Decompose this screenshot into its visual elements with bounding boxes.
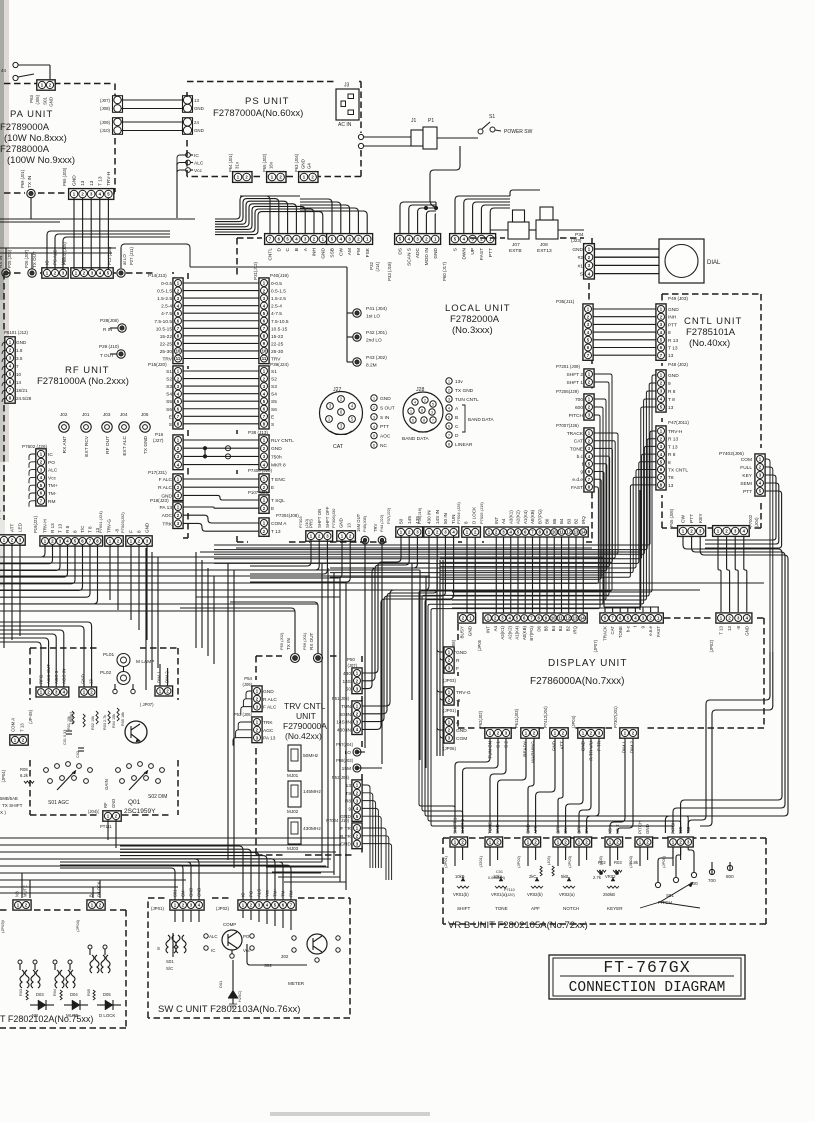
svg-text:7: 7: [16, 364, 19, 369]
svg-text:14S IN: 14S IN: [336, 720, 351, 726]
svg-text:P107 (J21): P107 (J21): [248, 490, 270, 495]
svg-text:SHFT ON: SHFT ON: [317, 509, 322, 528]
svg-text:P26 (J07): P26 (J07): [24, 249, 29, 268]
svg-text:PA UNIT: PA UNIT: [10, 109, 53, 120]
svg-text:TUN CNTL: TUN CNTL: [455, 397, 479, 403]
svg-text:D6: D6: [536, 625, 541, 631]
svg-text:50MHz: 50MHz: [303, 753, 319, 759]
svg-text:P39(J24): P39(J24): [270, 362, 289, 367]
svg-text:P48 (J02): P48 (J02): [668, 362, 688, 367]
svg-text:P7504 (J25): P7504 (J25): [456, 502, 461, 524]
svg-text:24: 24: [194, 120, 199, 125]
svg-text:FAST: FAST: [479, 248, 485, 260]
svg-text:PL02: PL02: [100, 670, 112, 676]
svg-text:RF OUT: RF OUT: [105, 436, 111, 454]
svg-text:DIM 1: DIM 1: [622, 741, 627, 754]
svg-text:CAT: CAT: [610, 626, 615, 635]
svg-text:TONE: TONE: [495, 906, 508, 911]
svg-text:FT-767GX: FT-767GX: [603, 958, 690, 977]
svg-text:S02 DIM: S02 DIM: [148, 794, 167, 800]
svg-text:F ALC: F ALC: [263, 705, 277, 711]
svg-text:GND: GND: [271, 446, 282, 452]
svg-text:(J09): (J09): [100, 120, 111, 125]
svg-text:13: 13: [194, 98, 199, 103]
svg-text:18/21: 18/21: [16, 388, 28, 393]
svg-text:ALC: ALC: [48, 468, 58, 474]
svg-text:B2: B2: [574, 518, 579, 524]
svg-text:(JP01): (JP01): [443, 855, 448, 867]
svg-text:GND: GND: [668, 373, 679, 379]
svg-text:(J04): (J04): [754, 517, 759, 527]
svg-text:ATT: ATT: [560, 741, 565, 750]
svg-text:TRV-H: TRV-H: [43, 519, 48, 533]
svg-text:FAST: FAST: [571, 485, 583, 491]
svg-text:P63 (J04): P63 (J04): [294, 153, 299, 172]
svg-text:44: 44: [1, 68, 7, 73]
svg-text:RX ANT: RX ANT: [62, 436, 68, 453]
svg-text:PTT: PTT: [689, 514, 695, 523]
svg-text:(JP05: (JP05: [477, 639, 482, 651]
svg-text:J02: J02: [60, 412, 68, 417]
svg-text:PA 13: PA 13: [160, 505, 173, 511]
svg-text:GND: GND: [197, 888, 202, 897]
svg-text:GND: GND: [111, 799, 116, 808]
svg-text:SHIFT: SHIFT: [457, 906, 470, 911]
svg-text:25-30: 25-30: [160, 349, 173, 355]
svg-text:IRQ: IRQ: [573, 625, 578, 633]
svg-text:ATT: ATT: [10, 523, 15, 532]
svg-text:13: 13: [668, 483, 674, 489]
svg-text:22-25: 22-25: [271, 341, 284, 347]
svg-text:VR02(a): VR02(a): [559, 892, 575, 897]
svg-text:SW C UNIT F2802103A(No.76xx): SW C UNIT F2802103A(No.76xx): [158, 1004, 300, 1015]
svg-text:P65 (J02): P65 (J02): [262, 153, 267, 172]
svg-text:PTT: PTT: [488, 248, 494, 257]
svg-text:F2788000A: F2788000A: [0, 144, 50, 155]
svg-text:VR03: VR03: [605, 874, 616, 879]
svg-text:TONE: TONE: [488, 822, 493, 834]
svg-text:J03: J03: [103, 412, 111, 417]
svg-text:13: 13: [347, 523, 352, 528]
svg-text:KEY: KEY: [742, 473, 752, 479]
svg-text:145: 145: [407, 516, 413, 524]
svg-text:RF: RF: [103, 802, 108, 808]
svg-text:C02: C02: [76, 751, 80, 758]
svg-text:P19(J21): P19(J21): [33, 515, 38, 533]
svg-text:P17(J31): P17(J31): [148, 470, 167, 475]
svg-text:R 13: R 13: [50, 523, 55, 533]
svg-text:SHIFT 1: SHIFT 1: [453, 817, 458, 834]
svg-text:PITCH: PITCH: [671, 821, 676, 834]
svg-text:GND: GND: [320, 247, 326, 258]
svg-text:INT: INT: [494, 517, 499, 524]
svg-text:E: E: [271, 414, 274, 420]
svg-text:(J09): (J09): [242, 682, 252, 687]
svg-text:(No.42xx): (No.42xx): [285, 731, 322, 741]
svg-text:S0 IN: S0 IN: [339, 712, 352, 718]
svg-text:T/C: T/C: [80, 525, 85, 533]
svg-text:E: E: [271, 485, 274, 491]
svg-text:8: 8: [137, 530, 142, 533]
svg-text:S01: S01: [43, 96, 48, 104]
svg-text:P52(J06): P52(J06): [332, 775, 350, 780]
svg-text:11: 11: [559, 530, 564, 535]
svg-text:VR B UNIT F2802105A(No.72xx): VR B UNIT F2802105A(No.72xx): [448, 920, 588, 931]
svg-text:25-30: 25-30: [271, 349, 284, 355]
svg-text:P50: P50: [347, 657, 356, 662]
svg-text:SSB: SSB: [330, 248, 336, 258]
svg-text:T 8: T 8: [88, 526, 93, 533]
svg-text:AOC: AOC: [162, 513, 173, 519]
svg-text:GAIN: GAIN: [104, 779, 109, 790]
svg-text:P7406 (J20): P7406 (J20): [248, 468, 272, 473]
svg-text:GND: GND: [81, 674, 86, 684]
svg-text:S6: S6: [271, 407, 277, 413]
svg-text:GND: GND: [189, 888, 194, 897]
svg-text:R 8: R 8: [65, 525, 70, 533]
svg-text:GND: GND: [668, 307, 679, 313]
svg-text:EXT13: EXT13: [537, 248, 552, 254]
svg-text:31v: 31v: [235, 161, 240, 169]
svg-text:P55 (J02): P55 (J02): [279, 632, 284, 650]
svg-text:P33 (J18): P33 (J18): [387, 261, 392, 281]
svg-text:(JP01): (JP01): [443, 708, 456, 713]
svg-text:TRV: TRV: [373, 523, 378, 532]
svg-text:F2790000A: F2790000A: [283, 721, 327, 731]
svg-text:7.5-10.5: 7.5-10.5: [271, 319, 289, 325]
svg-text:PITCH: PITCH: [569, 413, 584, 419]
svg-text:P51(J06): P51(J06): [332, 696, 350, 701]
svg-text:P56 (J01): P56 (J01): [302, 632, 307, 650]
svg-text:P7002: P7002: [748, 514, 753, 527]
svg-text:PTT: PTT: [668, 322, 677, 328]
svg-text:EXTB: EXTB: [509, 248, 522, 254]
svg-text:MJ01: MJ01: [287, 773, 299, 778]
svg-text:FAST: FAST: [656, 626, 661, 637]
svg-text:DISPLAY UNIT: DISPLAY UNIT: [548, 658, 627, 669]
svg-text:R 13: R 13: [668, 437, 678, 443]
svg-text:P7601 (J24): P7601 (J24): [98, 511, 103, 533]
svg-text:OFF: OFF: [577, 825, 582, 834]
svg-text:R05: R05: [87, 989, 91, 996]
svg-text:b.c: b.c: [577, 454, 584, 460]
svg-text:11: 11: [262, 356, 267, 361]
svg-text:TM+: TM+: [48, 483, 58, 489]
svg-text:MUTE: MUTE: [23, 885, 28, 897]
svg-text:F2782000A: F2782000A: [450, 314, 500, 325]
svg-text:12: 12: [566, 530, 571, 535]
svg-text:1.8k: 1.8k: [630, 860, 639, 865]
svg-text:S5: S5: [166, 399, 172, 405]
svg-text:P7303: P7303: [298, 516, 303, 528]
svg-text:COM A: COM A: [11, 718, 16, 732]
svg-text:P35(J11): P35(J11): [556, 299, 575, 304]
svg-text:IC: IC: [48, 452, 53, 458]
svg-text:C01 0.33: C01 0.33: [63, 730, 67, 745]
svg-text:R02 10k: R02 10k: [91, 716, 95, 730]
svg-text:( JP07): ( JP07): [140, 702, 154, 707]
svg-text:GND: GND: [468, 625, 473, 636]
svg-text:S1: S1: [271, 369, 277, 375]
svg-text:PTT: PTT: [743, 489, 752, 495]
svg-text:S1: S1: [489, 114, 495, 120]
svg-text:(J04)(: (J04)(: [88, 809, 100, 814]
svg-text:P54: P54: [244, 676, 252, 681]
svg-text:COM: COM: [456, 736, 467, 742]
svg-text:M LAMP: M LAMP: [136, 659, 154, 665]
svg-text:750h: 750h: [271, 454, 282, 460]
svg-text:S/C: S/C: [166, 966, 173, 971]
svg-text:R 8: R 8: [668, 389, 676, 395]
svg-text:GND: GND: [194, 128, 204, 133]
svg-text:P7602 (J26): P7602 (J26): [22, 444, 47, 449]
svg-text:2nd LO: 2nd LO: [366, 338, 382, 344]
svg-text:A0(KB): A0(KB): [522, 625, 527, 640]
svg-text:1.5-2.5: 1.5-2.5: [157, 296, 172, 302]
svg-text:(JP05): (JP05): [661, 855, 666, 867]
svg-text:11: 11: [176, 356, 181, 361]
svg-text:F2789000A: F2789000A: [0, 122, 50, 133]
svg-text:430 IN: 430 IN: [427, 510, 432, 524]
svg-text:PT111: PT111: [100, 824, 112, 829]
svg-text:302: 302: [281, 954, 289, 959]
svg-text:13v: 13v: [455, 379, 463, 385]
svg-text:800: 800: [726, 874, 734, 879]
svg-text:A3(K1): A3(K1): [508, 510, 513, 524]
svg-text:CONNECTION DIAGRAM: CONNECTION DIAGRAM: [569, 980, 726, 996]
svg-text:S OUT: S OUT: [380, 405, 395, 411]
svg-text:8: 8: [668, 330, 671, 336]
svg-text:IC: IC: [211, 948, 215, 953]
svg-text:APF: APF: [533, 825, 538, 834]
svg-text:CW: CW: [681, 515, 687, 523]
svg-text:at LO: at LO: [122, 254, 127, 265]
svg-text:4-7.5: 4-7.5: [271, 311, 282, 317]
svg-text:A3(K1): A3(K1): [500, 625, 505, 639]
svg-text:2kC: 2kC: [529, 874, 536, 879]
svg-text:GND: GND: [49, 97, 54, 107]
svg-text:0-0.5: 0-0.5: [271, 281, 282, 287]
svg-text:E: E: [271, 506, 274, 512]
svg-text:S2: S2: [166, 377, 172, 383]
svg-text:6.2k: 6.2k: [20, 773, 29, 778]
svg-text:P7206(J29): P7206(J29): [556, 389, 579, 394]
svg-text:X ): X ): [0, 810, 6, 815]
svg-text:P7306(J30: P7306(J30: [331, 508, 336, 528]
svg-text:(JP04): (JP04): [571, 715, 576, 728]
svg-text:TRK: TRK: [263, 720, 273, 726]
svg-text:TONE: TONE: [618, 626, 623, 638]
svg-text:(JP03): (JP03): [567, 855, 572, 867]
svg-text:J01: J01: [82, 412, 90, 417]
svg-text:5MB/5AB: 5MB/5AB: [0, 796, 18, 801]
svg-text:(J03): (J03): [546, 855, 551, 865]
svg-text:P28(J08): P28(J08): [100, 318, 119, 323]
svg-text:PRS: PRS: [309, 519, 314, 528]
svg-text:IRQ: IRQ: [581, 516, 586, 524]
svg-text:700: 700: [686, 826, 691, 834]
svg-text:NB: NB: [15, 891, 20, 897]
svg-text:(JP-05): (JP-05): [28, 709, 33, 723]
svg-text:J3: J3: [344, 83, 350, 89]
svg-text:P41 (J04): P41 (J04): [366, 306, 387, 312]
svg-text:(J20): (J20): [506, 893, 515, 897]
svg-text:5kB: 5kB: [561, 874, 568, 879]
svg-text:P18(J23): P18(J23): [150, 498, 169, 503]
svg-text:P62(J02): P62(J02): [478, 710, 483, 728]
svg-text:AGC: AGC: [263, 728, 274, 734]
svg-text:P7307(J01): P7307(J01): [613, 706, 618, 728]
svg-text:R08: R08: [20, 767, 28, 772]
svg-text:ALC: ALC: [209, 934, 218, 939]
svg-text:9: 9: [348, 806, 351, 812]
svg-text:UP: UP: [470, 248, 476, 255]
svg-text:10: 10: [552, 530, 557, 535]
svg-text:F2787000A(No.60xx): F2787000A(No.60xx): [213, 108, 303, 119]
svg-text:430: 430: [343, 671, 351, 677]
svg-text:13: 13: [89, 180, 95, 186]
svg-text:13: 13: [80, 180, 86, 186]
svg-text:Q01: Q01: [128, 799, 141, 806]
svg-text:P37(J22): P37(J22): [386, 507, 391, 524]
svg-text:A2(K2): A2(K2): [507, 625, 512, 639]
svg-text:0-0.5: 0-0.5: [161, 281, 172, 287]
svg-text:P47(J011): P47(J011): [668, 420, 689, 425]
svg-text:CNTL UNIT: CNTL UNIT: [684, 316, 742, 327]
svg-text:P44 (J22): P44 (J22): [379, 514, 384, 532]
svg-text:2.5-4: 2.5-4: [161, 304, 172, 310]
svg-text:ALC: ALC: [194, 161, 204, 167]
svg-text:(JP03)!: (JP03)!: [0, 920, 5, 933]
svg-text:PO: PO: [48, 460, 55, 466]
svg-text:10kB: 10kB: [455, 874, 465, 879]
svg-text:P7304(J08): P7304(J08): [276, 513, 299, 518]
svg-text:10.5-15: 10.5-15: [271, 326, 288, 332]
svg-text:10.5-15: 10.5-15: [156, 326, 173, 332]
svg-text:8: 8: [73, 530, 78, 533]
svg-text:F2781000A (No.2xxx): F2781000A (No.2xxx): [37, 376, 129, 387]
svg-text:P69 (J01): P69 (J01): [20, 169, 25, 188]
svg-text:PS UNIT: PS UNIT: [245, 96, 289, 107]
svg-text:F: F: [456, 666, 459, 672]
svg-text:AOC: AOC: [380, 434, 391, 440]
svg-text:B6: B6: [545, 518, 550, 524]
svg-text:(No.40xx): (No.40xx): [689, 338, 730, 349]
svg-text:VR01(b): VR01(b): [453, 892, 469, 897]
svg-text:POWER SW: POWER SW: [504, 129, 533, 135]
svg-text:(JP02): (JP02): [709, 639, 714, 652]
svg-text:GND: GND: [301, 159, 306, 169]
svg-text:BUSY: BUSY: [460, 626, 465, 639]
svg-text:A1(K4): A1(K4): [515, 625, 520, 639]
svg-text:GND: GND: [572, 247, 583, 253]
svg-text:P32: P32: [369, 261, 374, 269]
svg-text:A4: A4: [493, 625, 498, 631]
svg-text:B: B: [455, 415, 458, 421]
svg-text:P58(J03): P58(J03): [336, 758, 354, 763]
svg-text:R04: R04: [53, 989, 57, 996]
svg-text:(J10): (J10): [100, 128, 111, 133]
svg-text:GND: GND: [380, 396, 391, 402]
svg-text:S01: S01: [666, 893, 674, 898]
svg-text:R03: R03: [19, 989, 23, 996]
svg-text:PL01: PL01: [103, 652, 115, 658]
svg-text:D LOCK: D LOCK: [472, 506, 477, 524]
svg-text:KS 2: KS 2: [615, 824, 620, 834]
svg-text:11: 11: [558, 616, 563, 621]
svg-text:10: 10: [551, 616, 556, 621]
svg-text:CW: CW: [338, 248, 344, 256]
svg-text:(JP06): (JP06): [443, 746, 456, 751]
svg-text:SHFT OFF: SHFT OFF: [325, 506, 330, 528]
svg-text:S1: S1: [166, 369, 172, 375]
svg-text:SHFT 2: SHFT 2: [460, 818, 465, 834]
svg-text:FULL: FULL: [740, 465, 752, 471]
svg-text:P13 (J16): P13 (J16): [107, 246, 112, 265]
svg-text:T 13: T 13: [668, 346, 678, 352]
svg-text:50: 50: [399, 518, 405, 524]
svg-text:(JP03): (JP03): [443, 678, 456, 683]
svg-text:GND: GND: [744, 626, 749, 636]
svg-text:b-c: b-c: [625, 625, 630, 632]
svg-text:(10W No.8xxx): (10W No.8xxx): [4, 133, 67, 144]
svg-text:600: 600: [575, 405, 583, 411]
svg-text:P7201 (J09): P7201 (J09): [556, 364, 580, 369]
svg-text:TM-: TM-: [281, 889, 286, 897]
svg-text:D: D: [276, 247, 282, 251]
svg-text:(JP07): (JP07): [593, 639, 598, 652]
svg-text:S2: S2: [271, 377, 277, 383]
svg-text:S: S: [580, 272, 583, 278]
svg-text:F2785101A: F2785101A: [686, 327, 736, 338]
svg-text:B3: B3: [558, 625, 563, 631]
svg-text:PO: PO: [243, 934, 250, 939]
svg-text:A0(KB): A0(KB): [530, 509, 535, 524]
svg-text:12: 12: [565, 616, 570, 621]
svg-text:C: C: [285, 247, 291, 251]
svg-text:TM-: TM-: [48, 491, 57, 497]
svg-text:J27: J27: [333, 387, 341, 393]
svg-text:8: 8: [464, 521, 469, 524]
svg-text:P43 (J02): P43 (J02): [366, 355, 387, 361]
svg-text:P7005 (J15): P7005 (J15): [479, 502, 484, 524]
svg-text:C01: C01: [496, 870, 503, 874]
svg-text:CAT: CAT: [574, 439, 583, 445]
svg-text:IC: IC: [241, 893, 246, 897]
svg-text:DIAL: DIAL: [707, 260, 721, 266]
svg-text:10: 10: [262, 349, 267, 354]
svg-text:GND: GND: [495, 824, 500, 834]
svg-text:GND: GND: [339, 518, 344, 528]
svg-text:S5: S5: [271, 399, 277, 405]
svg-text:E: E: [169, 414, 172, 420]
svg-text:P31(J12): P31(J12): [253, 261, 258, 279]
svg-text:0.5-1.5: 0.5-1.5: [157, 289, 172, 295]
svg-text:D04: D04: [70, 992, 78, 997]
svg-text:P7402(J06): P7402(J06): [719, 451, 744, 457]
svg-text:TRACK: TRACK: [603, 626, 608, 641]
svg-text:S IN: S IN: [380, 415, 390, 421]
svg-text:LINEAR: LINEAR: [455, 442, 473, 448]
svg-text:14: 14: [16, 380, 22, 385]
svg-text:T F2802102A(No.75xx): T F2802102A(No.75xx): [0, 1014, 93, 1024]
svg-text:(JP04): (JP04): [1, 769, 6, 782]
svg-text:16v: 16v: [269, 161, 274, 169]
svg-text:-8: -8: [736, 625, 741, 629]
svg-text:KEYER: KEYER: [607, 906, 623, 911]
svg-text:P15(J20): P15(J20): [148, 362, 167, 367]
svg-text:(JP04): (JP04): [75, 919, 80, 931]
